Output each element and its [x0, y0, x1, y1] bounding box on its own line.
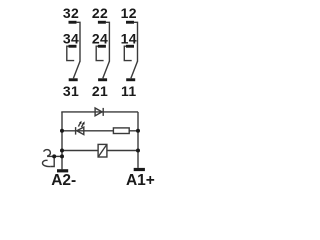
wire bottom branch: [62, 150, 138, 152]
bridge wire to bus: [47, 155, 62, 157]
wire top branch: [61, 111, 138, 113]
wire left bus A2: [61, 112, 63, 169]
svg-text:21: 21: [92, 83, 108, 99]
NO contact hook 24: [96, 46, 103, 60]
junction dot right-bottom: [136, 149, 140, 153]
terminal 32 bar: [69, 21, 77, 24]
terminal 31 bar: [69, 78, 78, 81]
contact arm 11: [131, 61, 138, 78]
wire middle branch: [62, 130, 138, 132]
relay coil K1: [98, 144, 107, 157]
bridge dot on bus: [60, 154, 64, 158]
contact arm 21: [103, 61, 110, 78]
wire 12 to pivot: [134, 22, 138, 61]
svg-text:22: 22: [92, 5, 108, 21]
wire 22 to pivot: [106, 22, 110, 61]
junction dot left-bottom: [60, 149, 64, 153]
svg-text:A2-: A2-: [51, 172, 76, 188]
terminal 11 bar: [126, 78, 135, 81]
terminal 21 bar: [98, 78, 107, 81]
diode V1: [95, 108, 103, 116]
bridge symbol upper hook: [44, 150, 51, 157]
NO contact hook 14: [124, 46, 131, 60]
terminal 12 bar: [126, 21, 134, 24]
svg-text:32: 32: [63, 5, 79, 21]
resistor R1: [113, 128, 129, 134]
wire right bus A1: [137, 112, 139, 168]
terminal A2 bar: [57, 169, 68, 172]
svg-text:14: 14: [121, 31, 137, 47]
LED: [76, 121, 85, 135]
bridge loop: [51, 156, 55, 166]
contact arm 31: [73, 61, 80, 78]
svg-text:12: 12: [121, 5, 137, 21]
bridge symbol lower hook: [42, 160, 50, 166]
NO contact hook 34: [67, 46, 74, 60]
svg-text:31: 31: [63, 83, 79, 99]
terminal 34 bar: [69, 45, 77, 48]
bridge dot on link: [52, 154, 56, 158]
svg-text:24: 24: [92, 31, 108, 47]
svg-text:A1+: A1+: [126, 172, 155, 188]
junction dot left-middle: [60, 129, 64, 133]
svg-text:11: 11: [121, 83, 137, 99]
wire 32 to pivot: [76, 22, 80, 61]
junction dot right-middle: [136, 129, 140, 133]
terminal 14 bar: [126, 45, 134, 48]
terminal 24 bar: [98, 45, 106, 48]
terminal A1 bar: [134, 168, 145, 171]
svg-text:34: 34: [63, 31, 79, 47]
terminal 22 bar: [98, 21, 106, 24]
